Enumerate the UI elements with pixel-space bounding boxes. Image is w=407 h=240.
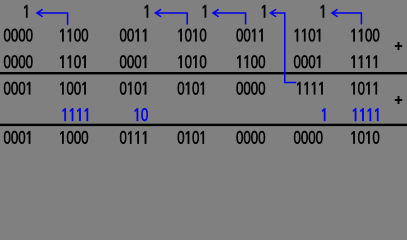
first addition operand A row group 7: 1100 [351, 29, 379, 42]
plus sign of second addition [395, 96, 402, 104]
final sum row group 1: 0001 [4, 131, 30, 144]
plus sign of first addition [395, 42, 402, 50]
first addition operand A row group 3: 0011 [120, 29, 146, 42]
carry bit 1 above column 2 [145, 5, 148, 17]
intermediate sum row group 4: 0101 [178, 82, 204, 95]
intermediate sum row group 5: 0000 [236, 82, 265, 95]
final sum row group 6: 0000 [294, 131, 323, 144]
first addition operand A row group 6: 1101 [295, 29, 320, 42]
second sum line [0, 124, 407, 126]
final sum row group 7: 1010 [351, 131, 379, 144]
carry arrow #3 [213, 10, 246, 25]
first addition operand B row group 7: 1111 [351, 56, 376, 68]
final sum row group 5: 0000 [236, 131, 265, 144]
first addition operand B row group 6: 0001 [294, 55, 320, 68]
final sum row group 2: 1000 [60, 131, 88, 144]
intermediate sum row group 2: 1001 [60, 82, 85, 95]
first addition operand A row group 1: 0000 [4, 29, 33, 42]
blue intermediate carry group 1111 under column 2 [63, 108, 88, 120]
final sum row group 3: 0111 [120, 131, 146, 144]
final sum row group 4: 0101 [178, 131, 204, 144]
first addition operand B row group 4: 1010 [178, 55, 206, 68]
first addition operand B row group 3: 0001 [120, 55, 146, 68]
carry arrow #1 [37, 10, 68, 25]
carry bit 1 above column 3 [203, 5, 206, 17]
intermediate sum row group 7: 1011 [351, 82, 376, 95]
carry bit 1 above column 4 [262, 5, 265, 17]
carry bit 1 above column 5 [321, 5, 324, 17]
first sum line [0, 72, 407, 74]
carry arrow #4 [332, 10, 362, 25]
first addition operand A row group 4: 1010 [178, 29, 206, 42]
blue intermediate carry 10 under column 3 [135, 108, 148, 121]
long carry arrow from first addition into second addition [270, 10, 296, 83]
carry bit 1 above column 1 [24, 5, 27, 17]
intermediate sum row group 3: 0101 [120, 82, 146, 95]
blue intermediate carry 1 under column 6 [322, 108, 325, 120]
first addition operand B row group 2: 1101 [60, 55, 85, 68]
first addition operand A row group 5: 0011 [236, 29, 262, 42]
blue intermediate carry group 1111 under column 7 [353, 108, 378, 120]
first addition operand B row group 5: 1100 [237, 55, 265, 68]
first addition operand A row group 2: 1100 [60, 29, 88, 42]
intermediate sum row group 1: 0001 [4, 82, 30, 95]
intermediate sum row group 6: 1111 [297, 82, 322, 94]
carry arrow #2 [155, 10, 187, 25]
first addition operand B row group 1: 0000 [4, 55, 33, 68]
